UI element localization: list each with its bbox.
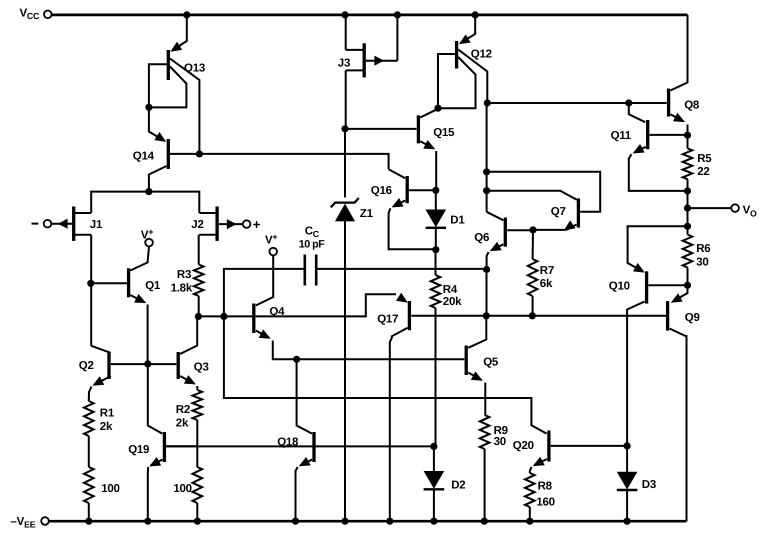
resistor R9 30	[480, 415, 490, 520]
node R6 bottom / Q10 base / Q9 emitter	[684, 282, 691, 289]
node Q12 outer collector junction	[484, 99, 491, 106]
resistor R1 2k	[84, 401, 94, 467]
svg-text:160: 160	[536, 496, 554, 508]
svg-text:R8: R8	[538, 480, 553, 492]
node bottom rail junction at Q19 emitter	[144, 518, 151, 525]
node bottom rail junction at R2 100	[194, 518, 201, 525]
label Q10	[609, 280, 630, 292]
transistor Q12	[438, 15, 487, 108]
transistor J3	[346, 16, 398, 127]
transistor Q4	[254, 256, 295, 360]
svg-text:2k: 2k	[100, 421, 113, 433]
wire D1 to R4	[435, 250, 437, 275]
transistor Q7	[535, 198, 579, 230]
diode D2	[424, 446, 445, 519]
label R2	[176, 404, 190, 430]
node Q2-Q3 base junction	[144, 360, 151, 367]
node bottom rail junction at D3	[624, 518, 631, 525]
label Q14	[133, 151, 155, 163]
transistor Q11	[629, 103, 686, 191]
node J1-J2 drain midpoint	[145, 188, 152, 195]
label R1	[100, 407, 115, 432]
svg-text:R4: R4	[443, 284, 458, 296]
wire Q19-Q18 base bus	[166, 445, 432, 447]
label 100 right	[173, 483, 191, 495]
wire output column	[687, 191, 689, 226]
label Q4	[269, 306, 285, 318]
wire Q7 collector	[487, 191, 577, 200]
label Q7	[551, 206, 566, 218]
svg-text:J1: J1	[90, 219, 103, 231]
label Cc	[299, 226, 325, 251]
svg-text:Q13: Q13	[184, 62, 205, 74]
transistor Q10	[627, 226, 687, 444]
transistor Q9	[668, 285, 688, 336]
wire Q12 collector to Q8 base	[487, 102, 667, 104]
svg-text:6k: 6k	[540, 278, 553, 290]
transistor Q15	[418, 109, 437, 188]
svg-text:Q5: Q5	[483, 357, 499, 369]
node R6 top / Q10 emitter tap	[684, 223, 691, 230]
node Q20 base / Q10 collector junction	[624, 442, 631, 449]
label Q3	[194, 362, 209, 374]
transistor J2	[199, 207, 242, 241]
label Q19	[128, 444, 149, 456]
label Q6	[474, 232, 489, 244]
node bottom rail junction at Z1 line	[341, 518, 348, 525]
transistor Q6	[487, 212, 532, 268]
svg-text:Q12: Q12	[471, 49, 492, 61]
node Q5 collector tap	[483, 312, 490, 319]
node D1 anode junction	[432, 187, 439, 194]
wire Q12 collector bus	[486, 103, 488, 212]
node bottom rail junction at Q17 collector	[386, 518, 393, 525]
transistor Q5	[466, 316, 486, 415]
label Q11	[611, 130, 632, 142]
wire Q6 emitter to Q5 collector	[486, 270, 488, 316]
svg-text:O: O	[750, 208, 757, 218]
node J3 source / Q15 base junction	[341, 125, 348, 132]
label R5	[697, 153, 712, 178]
svg-text:Q19: Q19	[128, 444, 149, 456]
node Q15 collector / Q12 base	[434, 105, 441, 112]
transistor Q16	[389, 169, 434, 249]
transistor Q20	[530, 431, 625, 474]
svg-text:Q14: Q14	[133, 151, 155, 163]
svg-text:Q2: Q2	[79, 360, 94, 372]
svg-text:D3: D3	[642, 479, 656, 491]
node top rail junction at J3 drain	[341, 11, 348, 18]
resistor 100 left	[84, 467, 94, 520]
svg-text:D2: D2	[451, 480, 465, 492]
svg-text:Q17: Q17	[377, 314, 398, 326]
label R8	[536, 480, 554, 508]
label R3	[171, 269, 193, 294]
label D3	[642, 479, 656, 491]
svg-text:D1: D1	[450, 214, 465, 226]
label Z1	[360, 208, 374, 220]
transistor Q19	[148, 364, 196, 520]
node Q6 emitter / Cc junction	[483, 266, 490, 273]
node Q1 base tap	[87, 280, 94, 287]
svg-text:1.8k: 1.8k	[171, 283, 193, 295]
svg-text:Q7: Q7	[551, 206, 566, 218]
wire lower bias bus	[224, 318, 547, 434]
transistor Q17	[390, 293, 410, 520]
label Q13	[184, 62, 205, 74]
resistor R7 6k	[528, 230, 538, 315]
svg-text:30: 30	[696, 256, 708, 268]
svg-text:100: 100	[101, 483, 119, 495]
svg-text:Q20: Q20	[513, 440, 534, 452]
svg-text:Q3: Q3	[194, 362, 209, 374]
transistor Q1	[91, 247, 149, 362]
node Q6 base / Q7 emitter / R7 top	[529, 226, 536, 233]
transistor Q2	[89, 352, 111, 401]
svg-text:+: +	[253, 217, 261, 232]
wire Cc branch riser	[224, 269, 304, 317]
node R3 bottom / Q3 collector	[195, 313, 202, 320]
node R7 bottom tap	[529, 312, 536, 319]
wire R3 bottom to Q4 base	[200, 315, 252, 317]
svg-text:R6: R6	[696, 243, 710, 255]
label Q16	[371, 185, 392, 197]
svg-text:Q15: Q15	[433, 127, 455, 139]
node Q4 base tap for Cc	[220, 313, 227, 320]
svg-text:Q1: Q1	[145, 280, 161, 292]
label R7	[540, 265, 554, 290]
label R4	[443, 284, 462, 308]
node top rail junction at Q13 emitter	[183, 11, 190, 18]
ground -VEE bottom rail	[49, 335, 687, 521]
label J3	[338, 58, 350, 70]
svg-text:Q9: Q9	[685, 312, 700, 324]
terminal VCC	[20, 8, 52, 21]
terminal V+ above Q1	[141, 227, 153, 246]
svg-text:R7: R7	[540, 265, 554, 277]
label Q2	[79, 360, 94, 372]
wire Q2-Q3 base bus	[111, 363, 177, 365]
wire VCC top rail	[52, 15, 688, 83]
diode D1	[426, 190, 447, 248]
svg-text:20k: 20k	[443, 296, 462, 308]
node bottom rail junction at R8	[526, 518, 533, 525]
capacitor Cc 10pF	[305, 255, 485, 286]
label D1	[450, 214, 465, 226]
svg-text:R2: R2	[176, 404, 190, 416]
svg-text:Q10: Q10	[609, 280, 630, 292]
node Q4 emitter junction	[293, 356, 300, 363]
node D2 anode junction	[430, 443, 437, 450]
svg-text:Q6: Q6	[474, 232, 489, 244]
resistor R8 160	[525, 473, 535, 520]
resistor R6 30	[683, 226, 693, 285]
node Q8 base / Q11 collector tap	[625, 99, 632, 106]
wire Q4 emitter to Q5 base	[297, 358, 465, 360]
label J1	[90, 219, 103, 231]
terminal inverting input -	[32, 220, 52, 228]
svg-text:R5: R5	[697, 153, 712, 165]
wire Z1 line lower	[344, 221, 346, 519]
node R5 bottom / Q11 emitter	[684, 187, 691, 194]
wire Z1 line upper	[344, 129, 346, 198]
wire Q7 base loop	[487, 172, 601, 212]
transistor Q3	[178, 319, 197, 391]
wire J1-J2 drain bus	[91, 191, 199, 213]
wire J2 source to R3	[198, 235, 200, 265]
svg-text:2k: 2k	[176, 417, 189, 429]
svg-text:J2: J2	[191, 219, 203, 231]
resistor R2 2k	[193, 390, 203, 467]
svg-text:Q16: Q16	[371, 185, 392, 197]
resistor 100 right	[193, 467, 203, 520]
label Q9	[685, 312, 700, 324]
node Q7 base loop tap	[483, 168, 490, 175]
transistor Q8	[669, 83, 688, 134]
terminal -VEE	[11, 516, 49, 529]
wire J3 source to Q15 base	[345, 128, 417, 130]
label 100 left	[101, 483, 119, 495]
node bottom rail junction at R1	[85, 518, 92, 525]
node Q7 collector tap	[483, 187, 490, 194]
node top rail junction at Q12 emitter	[472, 11, 479, 18]
label Q17	[377, 314, 398, 326]
transistor Q18	[296, 359, 315, 519]
svg-text:22: 22	[697, 166, 709, 178]
svg-text:R1: R1	[100, 407, 115, 419]
wire Q17 base bus to Q9	[411, 315, 666, 317]
transistor J1	[52, 207, 92, 241]
wire Q14 base to Q16 base	[201, 154, 389, 169]
wire Q4 base through-bar to Q17 emitter riser	[256, 294, 396, 316]
terminal VO	[688, 204, 758, 218]
terminal V+ above Q4	[265, 232, 277, 255]
node Q14 base / Q13 collector	[196, 150, 203, 157]
transistor Q14	[149, 107, 200, 190]
svg-text:Q11: Q11	[611, 130, 632, 142]
node D1 cathode junction	[432, 246, 439, 253]
terminal non-inverting input +	[243, 217, 261, 232]
label D2	[451, 480, 465, 492]
label Q5	[483, 357, 499, 369]
wire J1 source down to Q2 collector	[91, 235, 110, 353]
node top rail junction at J3 gate	[394, 11, 401, 18]
label Q18	[277, 436, 299, 448]
label Q12	[471, 49, 492, 61]
svg-text:30: 30	[494, 436, 506, 448]
svg-text:Z1: Z1	[360, 208, 374, 220]
label J2	[191, 219, 203, 231]
diode D3	[617, 446, 638, 520]
svg-text:R3: R3	[177, 269, 191, 281]
node Q13 base-collector tie	[145, 104, 152, 111]
svg-text:10 pF: 10 pF	[299, 239, 325, 251]
label R6	[696, 243, 710, 268]
node bottom rail junction at Q18 emitter	[292, 518, 299, 525]
node R5 top	[684, 132, 691, 139]
label Q1	[145, 280, 161, 292]
label Q8	[684, 100, 700, 112]
resistor R5 22	[683, 135, 693, 191]
node VO tap	[684, 205, 691, 212]
resistor R4 20k	[431, 275, 441, 445]
node bottom rail junction at D2	[430, 518, 437, 525]
label R9	[494, 425, 508, 448]
zener Z1	[331, 198, 359, 221]
resistor R3 1.8k	[194, 265, 204, 316]
svg-text:Q8: Q8	[684, 100, 700, 112]
label Q15	[433, 127, 455, 139]
svg-text:J3: J3	[338, 58, 350, 70]
node bottom rail junction at R9	[481, 518, 488, 525]
transistor Q13	[149, 15, 200, 152]
svg-text:100: 100	[173, 483, 191, 495]
label Q20	[513, 440, 534, 452]
